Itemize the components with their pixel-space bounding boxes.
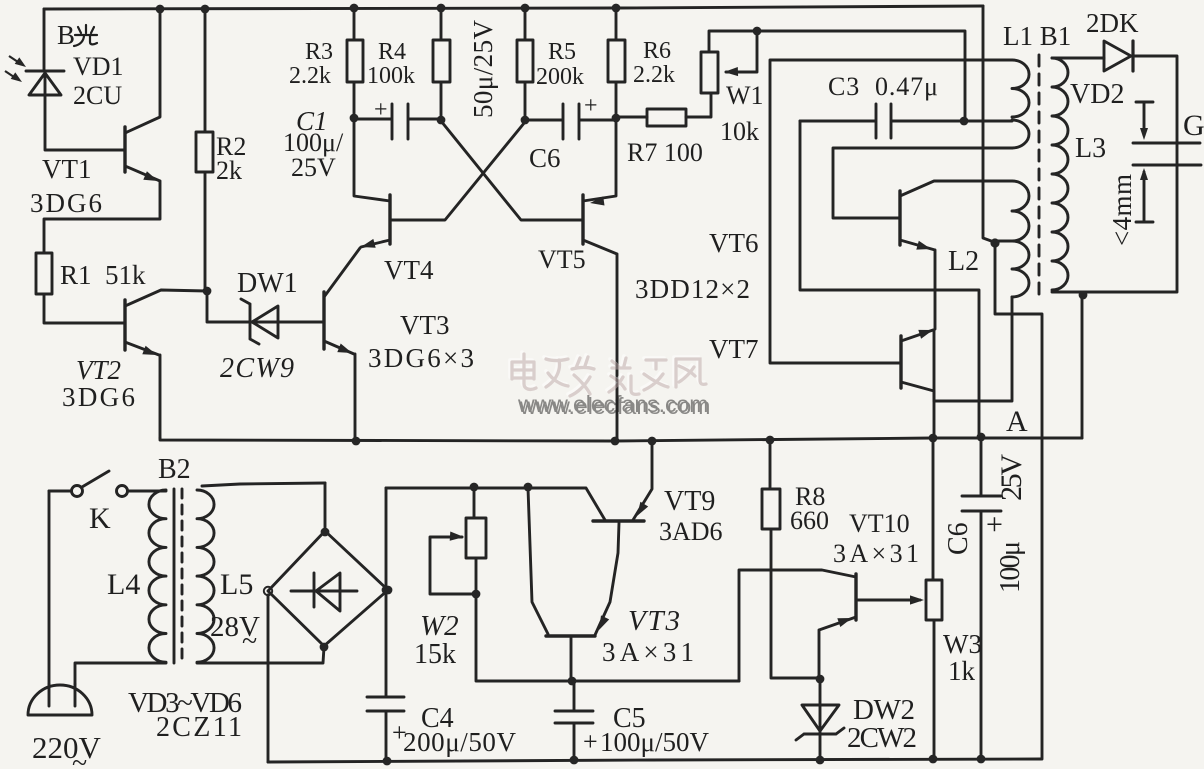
svg-text:2k: 2k — [216, 156, 242, 185]
svg-text:W3: W3 — [943, 629, 982, 659]
svg-text:2CW9: 2CW9 — [220, 353, 294, 384]
svg-text:DW1: DW1 — [237, 268, 298, 299]
svg-text:R3: R3 — [305, 39, 333, 65]
svg-text:VT3: VT3 — [400, 310, 450, 340]
svg-text:VD2: VD2 — [1070, 79, 1124, 110]
svg-text:100μ: 100μ — [995, 541, 1026, 593]
svg-text:W2: W2 — [420, 610, 459, 642]
svg-text:VT10: VT10 — [849, 509, 910, 538]
svg-text:+: + — [986, 508, 1003, 541]
svg-text:3A×31: 3A×31 — [833, 539, 919, 568]
svg-text:VT5: VT5 — [538, 245, 586, 274]
svg-text:10k: 10k — [720, 117, 759, 146]
svg-text:2CZ11: 2CZ11 — [156, 712, 242, 743]
svg-text:1k: 1k — [948, 656, 976, 686]
svg-text:K: K — [89, 502, 111, 535]
svg-text:VT2: VT2 — [76, 355, 121, 385]
svg-text:15k: 15k — [414, 639, 456, 670]
svg-text:B: B — [57, 20, 75, 50]
svg-text:~: ~ — [72, 748, 87, 769]
svg-text:L1 B1: L1 B1 — [1003, 21, 1071, 51]
svg-text:W1: W1 — [726, 81, 764, 110]
svg-text:660: 660 — [790, 506, 829, 535]
svg-text:100μ/50V: 100μ/50V — [600, 727, 710, 757]
svg-text:2.2k: 2.2k — [289, 63, 331, 89]
svg-text:3DD12×2: 3DD12×2 — [635, 274, 750, 304]
svg-text:3AD6: 3AD6 — [659, 517, 723, 546]
svg-text:VT9: VT9 — [664, 486, 715, 517]
svg-text:25V: 25V — [995, 454, 1028, 501]
svg-text:L5: L5 — [220, 568, 253, 601]
svg-text:L3: L3 — [1075, 133, 1106, 164]
svg-text:B2: B2 — [158, 454, 191, 485]
svg-text:VT1: VT1 — [42, 154, 92, 184]
svg-text:R5: R5 — [548, 39, 576, 65]
svg-text:G: G — [1183, 109, 1204, 142]
svg-text:220V: 220V — [32, 730, 102, 765]
svg-text:L4: L4 — [107, 568, 140, 601]
svg-text:VT7: VT7 — [709, 334, 759, 364]
svg-text:C6: C6 — [529, 143, 561, 173]
svg-text:+: + — [583, 727, 598, 756]
svg-text:+: + — [584, 93, 598, 119]
svg-text:3DG6×3: 3DG6×3 — [368, 343, 474, 373]
svg-text:2.2k: 2.2k — [633, 62, 675, 88]
svg-text:+: + — [374, 97, 388, 123]
svg-text:VT6: VT6 — [709, 228, 759, 258]
svg-text:2DK: 2DK — [1086, 8, 1139, 38]
svg-text:VT3: VT3 — [628, 605, 680, 637]
svg-text:R4: R4 — [378, 39, 406, 65]
svg-text:~: ~ — [242, 626, 257, 657]
svg-text:+: + — [392, 718, 407, 747]
svg-text:200k: 200k — [536, 64, 584, 90]
svg-text:L2: L2 — [948, 246, 979, 277]
svg-text:2CW2: 2CW2 — [847, 722, 917, 754]
svg-text:<4mm: <4mm — [1107, 174, 1137, 246]
svg-text:2CU: 2CU — [73, 81, 122, 110]
svg-text:C3 0.47μ: C3 0.47μ — [828, 72, 938, 101]
svg-text:R1 51k: R1 51k — [60, 260, 146, 290]
svg-text:C6: C6 — [943, 522, 974, 555]
svg-text:A: A — [1006, 405, 1028, 438]
svg-text:VT4: VT4 — [384, 255, 434, 285]
svg-text:R7 100: R7 100 — [627, 138, 703, 167]
svg-text:25V: 25V — [291, 153, 336, 182]
svg-text:200μ/50V: 200μ/50V — [403, 727, 517, 757]
svg-text:VD1: VD1 — [73, 52, 124, 81]
svg-text:50μ/25V: 50μ/25V — [468, 20, 498, 119]
svg-text:100k: 100k — [367, 63, 415, 89]
svg-text:www.elecfans.com: www.elecfans.com — [519, 393, 710, 419]
svg-text:R6: R6 — [643, 38, 671, 64]
